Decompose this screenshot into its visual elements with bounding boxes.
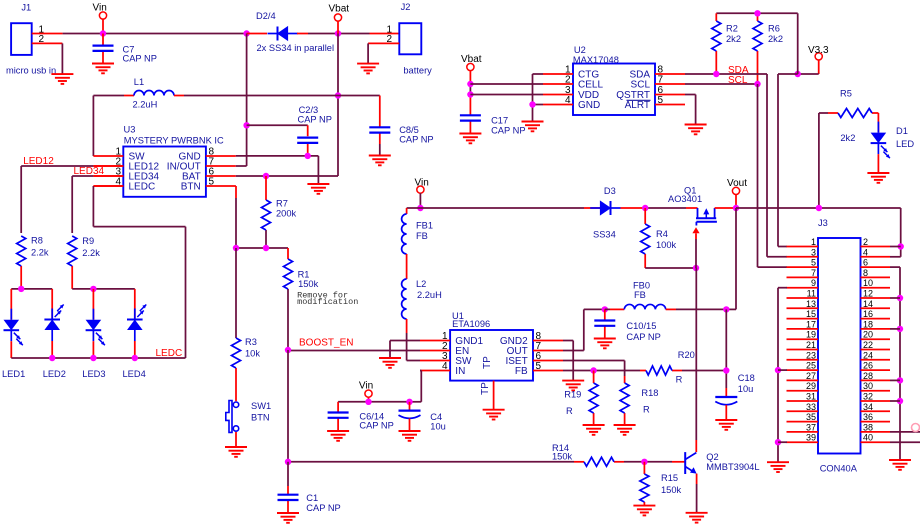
svg-text:4: 4: [442, 361, 448, 372]
pin 8 number U3: [209, 147, 215, 158]
svg-text:11: 11: [807, 289, 816, 299]
svg-text:2k2: 2k2: [840, 133, 855, 143]
svg-text:MAX17048: MAX17048: [573, 55, 619, 65]
pin 4 number U3: [115, 177, 121, 188]
wire U2 pin 7 stub: [655, 83, 685, 85]
wire J3 pin 3 stub: [787, 256, 819, 258]
pin name ALRT U2: [625, 100, 650, 111]
resistor R8 2.2k: [17, 236, 26, 289]
svg-text:4: 4: [863, 247, 868, 257]
pin 24 number J3: [863, 350, 873, 360]
svg-text:CAP NP: CAP NP: [306, 503, 340, 513]
wire U3 pin 7 stub: [206, 165, 236, 167]
wire Vin mid stem: [419, 193, 421, 208]
wire diode left lead red: [247, 33, 267, 35]
wire Q2 emitter: [696, 474, 698, 513]
wire FB1 top lead: [406, 208, 408, 214]
label C4 value 10u: [430, 421, 446, 431]
svg-text:LED1: LED1: [2, 369, 25, 379]
svg-text:LED3: LED3: [82, 369, 105, 379]
svg-text:D2/4: D2/4: [256, 11, 276, 21]
svg-text:R8: R8: [31, 236, 43, 246]
label LED1: [2, 369, 25, 379]
svg-text:30: 30: [863, 381, 873, 391]
label LED3: [82, 369, 105, 379]
wire J3 pin 4 stub: [861, 256, 891, 258]
wire J3 pin 39 stub: [787, 441, 819, 443]
net label SCL: [728, 75, 748, 86]
svg-text:FB0: FB0: [633, 281, 650, 291]
wire J2 pin2 stub and drop: [368, 43, 399, 63]
label R7 refdes: [276, 199, 288, 209]
label R15 refdes: [661, 473, 678, 483]
wire U1 pin 7 stub: [533, 350, 563, 352]
wire U3 BAT row: [236, 175, 338, 177]
resistor R4 100k: [641, 208, 650, 268]
wire U1 pin 8 stub: [533, 340, 563, 342]
svg-text:40: 40: [863, 433, 873, 443]
svg-text:9: 9: [811, 278, 816, 288]
net label SDA: [728, 65, 749, 76]
LED LED4: [127, 298, 146, 358]
wire U3 GND row to C2/3 bottom: [236, 156, 319, 184]
resistor R6 2k2: [753, 13, 762, 84]
junction R6 top rail: [754, 10, 760, 16]
svg-text:FB: FB: [515, 366, 528, 377]
svg-text:GND: GND: [578, 100, 600, 111]
junction C18 R20: [723, 367, 729, 373]
pin 35 number J3: [806, 412, 816, 422]
ferrite bead FB1: [402, 214, 407, 254]
wire J3 pin 5 stub: [787, 266, 819, 268]
resistor R1 150k: [284, 248, 293, 350]
pin 1 number J3: [811, 237, 816, 247]
resistor R3 10k: [232, 248, 241, 372]
svg-text:ALRT: ALRT: [625, 100, 650, 111]
pin 17 number J3: [806, 319, 816, 329]
resistor R18: [620, 383, 629, 425]
svg-text:5: 5: [811, 258, 816, 268]
junction J3 pin18: [897, 326, 903, 332]
pin 1 number U2: [565, 65, 571, 76]
pin name VDD U2: [578, 90, 599, 101]
svg-text:7: 7: [811, 268, 816, 278]
pin 23 number J3: [806, 350, 816, 360]
pin 1 number J1: [38, 24, 44, 35]
ground C17: [459, 134, 481, 144]
pin name CTG U2: [578, 70, 599, 81]
wire J3 pin 14 stub: [861, 307, 891, 309]
wire VDD to Vbat: [470, 94, 543, 96]
wire LED bottom rail: [11, 357, 185, 359]
label L1 refdes: [134, 77, 144, 87]
pin 3 number J3: [811, 247, 816, 257]
pin 2 number U1: [442, 341, 448, 352]
svg-text:12: 12: [863, 289, 873, 299]
capacitor C18 10u: [715, 397, 737, 420]
wire J3 pin 23 stub: [787, 359, 819, 361]
wire U1 IN wire: [410, 371, 422, 402]
ferrite bead FB0: [624, 304, 665, 309]
svg-text:CAP NP: CAP NP: [626, 332, 660, 342]
svg-text:Vbat: Vbat: [461, 54, 482, 65]
label C1 refdes: [306, 493, 318, 503]
wire J3 pin 34 stub: [861, 410, 891, 412]
wire J3 right ground rail: [890, 267, 900, 460]
wire U3 pin 6 stub: [206, 175, 236, 177]
wire R20 right to C18 node: [682, 370, 726, 372]
label FB0 value FB: [634, 290, 646, 300]
label R1 value: [298, 279, 319, 289]
svg-text:21: 21: [806, 340, 816, 350]
ground C8/5: [369, 156, 391, 166]
svg-text:R2: R2: [726, 24, 738, 34]
label C7 refdes: [123, 45, 135, 55]
junction VDD: [467, 91, 473, 97]
label R2 refdes: [726, 24, 738, 34]
wire R5 right to D1: [877, 113, 879, 122]
label D3 value SS34: [593, 229, 616, 239]
svg-text:MYSTERY PWRBNK IC: MYSTERY PWRBNK IC: [124, 135, 224, 145]
pin 11 number J3: [807, 289, 816, 299]
svg-text:CELL: CELL: [578, 80, 603, 91]
junction LED2 bottom: [49, 355, 55, 361]
wire U1 pin 5 stub: [533, 370, 563, 372]
pin 6 number U3: [209, 167, 215, 178]
label C4 refdes: [430, 412, 442, 422]
wire J3 pin 1 stub: [787, 246, 819, 248]
wire U2 pin 3 stub: [543, 94, 573, 96]
pin name IN/OUT U3: [167, 162, 201, 173]
junction Vin rail: [100, 30, 106, 36]
junction C10/15 FB0: [602, 306, 608, 312]
resistor R9 2.2k: [68, 236, 77, 289]
label R7 value: [276, 209, 297, 219]
svg-text:J2: J2: [401, 2, 411, 12]
svg-text:5: 5: [209, 177, 215, 188]
wire Vbat rail: [308, 33, 370, 35]
wire Q1 drain to Vout: [715, 207, 736, 209]
label R2 value: [726, 34, 741, 44]
label C7 value CAP NP: [123, 53, 157, 63]
pin arrow Q1 gate: [692, 227, 699, 239]
label C18 value 10u: [738, 384, 754, 394]
wire L2 to U1 SW: [406, 319, 408, 361]
wire pullup top rail: [716, 12, 797, 14]
label C17 refdes: [491, 116, 508, 126]
label SW1 refdes: [251, 401, 271, 411]
wire U1 SW row: [407, 360, 420, 362]
svg-text:SCL: SCL: [728, 75, 748, 86]
capacitor C4 10u: [399, 402, 421, 431]
svg-text:J3: J3: [818, 218, 828, 228]
wire J3 pin32 link: [890, 400, 900, 402]
wire CELL to Vbat: [470, 83, 543, 85]
wire U3 IN/OUT to diode node: [236, 34, 247, 167]
svg-text:MMBT3904L: MMBT3904L: [706, 462, 759, 472]
LED D1: [871, 122, 890, 162]
junction LED3 bottom: [90, 355, 96, 361]
label R3 value: [245, 349, 260, 359]
svg-text:Vbat: Vbat: [329, 3, 350, 14]
capacitor C17: [460, 115, 481, 133]
ground TP: [483, 410, 505, 420]
inductor L2 2.2uH: [402, 279, 407, 319]
pin 7 number J3: [811, 268, 816, 278]
svg-text:LED34: LED34: [74, 166, 105, 177]
label R19 refdes: [564, 390, 581, 400]
label J3 name CON40A: [820, 464, 858, 474]
junction Vin bottom: [365, 399, 371, 405]
pin 29 number J3: [806, 381, 816, 391]
wire J3 pin 28 stub: [861, 379, 891, 381]
junction R8 rail1: [18, 286, 24, 292]
wire J3 pin 2 stub: [861, 246, 891, 248]
label R5 refdes: [840, 88, 852, 98]
IC U1 ETA1096: [450, 330, 533, 381]
pin 32 number J3: [863, 392, 873, 402]
pin name SW U1: [455, 356, 472, 367]
junction C2/3 branch: [243, 122, 249, 128]
wire LED3 column top: [92, 289, 94, 298]
svg-text:2x SS34 in parallel: 2x SS34 in parallel: [257, 43, 335, 53]
svg-text:150k: 150k: [298, 279, 319, 289]
wire J3 pin 9 stub: [787, 287, 819, 289]
wire J3 left ground rail: [778, 288, 787, 462]
ground R19: [583, 425, 605, 435]
svg-text:BTN: BTN: [251, 413, 270, 423]
svg-text:Vout: Vout: [727, 178, 747, 189]
wire L1 left lead: [93, 95, 134, 97]
wire C18 vertical: [725, 309, 727, 397]
pin name GND U2: [578, 100, 600, 111]
svg-text:5: 5: [658, 95, 664, 106]
resistor R20: [646, 366, 682, 375]
wire SDA row: [685, 73, 767, 75]
label R9 value: [82, 248, 100, 258]
wire LED12 net: [21, 166, 123, 233]
wire J3 pin 17 stub: [787, 328, 819, 330]
ground U1 GND2: [562, 381, 584, 391]
wire U3 pin 1 stub: [93, 155, 123, 157]
wire J3 pin25 link: [778, 369, 787, 371]
label Q1 value AO3401: [668, 194, 702, 204]
svg-text:C10/15: C10/15: [626, 321, 656, 331]
svg-text:CON40A: CON40A: [820, 464, 858, 474]
label U2 name MAX17048: [573, 55, 619, 65]
pin 18 number J3: [863, 319, 873, 329]
svg-text:2.2uH: 2.2uH: [417, 290, 442, 300]
wire C2/3 top branch: [247, 125, 308, 136]
power port at right edge (faded): [912, 424, 920, 432]
ground R15: [633, 506, 655, 516]
pin name SDA U2: [629, 70, 650, 81]
wire L1 to U3 SW: [92, 96, 94, 157]
wire R5 left to Vout net: [819, 113, 828, 208]
wire V3.3 rail up: [797, 13, 799, 74]
svg-text:AO3401: AO3401: [668, 194, 702, 204]
ground C7: [92, 64, 114, 74]
svg-text:10k: 10k: [245, 349, 260, 359]
capacitor C2/3: [297, 138, 318, 156]
ground J2 pin2: [357, 64, 379, 74]
wire Vout rail right: [736, 207, 901, 209]
svg-text:L2: L2: [416, 279, 426, 289]
junction R4 gate node: [693, 265, 699, 271]
inductor L1 2.2uH: [134, 91, 174, 96]
label Q2 value MMBT3904L: [706, 462, 759, 472]
svg-text:6: 6: [863, 258, 868, 268]
wire U1 ISET to R18: [563, 361, 625, 384]
svg-text:R: R: [643, 405, 650, 415]
pin 39 number J3: [806, 433, 816, 443]
svg-text:TP: TP: [480, 382, 491, 395]
label R14 value: [552, 452, 573, 462]
ground U2: [522, 122, 544, 132]
wire J3 pin 22 stub: [861, 349, 891, 351]
label D1 value LED: [896, 139, 914, 149]
ground D1: [867, 173, 889, 183]
svg-text:200k: 200k: [276, 209, 297, 219]
label R18 refdes: [641, 388, 658, 398]
pin 27 number J3: [806, 371, 816, 381]
svg-text:TP: TP: [482, 356, 493, 369]
wire FB1 to L2: [406, 254, 408, 279]
svg-text:C1: C1: [306, 493, 318, 503]
capacitor C7: [93, 34, 114, 64]
label C18 refdes: [738, 373, 755, 383]
svg-text:24: 24: [863, 350, 873, 360]
net label LED12: [23, 156, 54, 167]
wire U3 pin 4 stub: [93, 185, 123, 187]
label R20 value R: [676, 375, 683, 385]
net label BOOST_EN: [299, 338, 353, 349]
svg-text:Vin: Vin: [359, 381, 373, 392]
wire R1 bottom to bottom row: [287, 350, 289, 462]
svg-text:CAP NP: CAP NP: [123, 53, 157, 63]
svg-text:33: 33: [806, 402, 816, 412]
junction C4 top: [406, 399, 412, 405]
wire J3 pin 13 stub: [787, 307, 819, 309]
wire U1 pin 6 stub: [533, 360, 563, 362]
pin 6 number J3: [863, 258, 868, 268]
wire U3 pin 5 stub: [206, 185, 236, 187]
wire Vout stem: [735, 195, 737, 209]
pin 5 number U2: [658, 95, 664, 106]
svg-text:R9: R9: [82, 236, 94, 246]
wire SCL row: [685, 83, 758, 85]
label 2x SS34 in parallel: [257, 43, 335, 53]
pin name BTN U3: [181, 182, 201, 193]
pin 30 number J3: [863, 381, 873, 391]
svg-text:R18: R18: [641, 388, 658, 398]
junction LED3 rail2: [90, 286, 96, 292]
label J2 refdes: [401, 2, 411, 12]
wire J3 pin40 to edge: [890, 441, 920, 443]
pin 1 number U3: [115, 147, 121, 158]
label C2/3 refdes: [299, 105, 319, 115]
wire J3 pin 27 stub: [787, 379, 819, 381]
svg-text:Vin: Vin: [415, 178, 429, 189]
svg-text:22: 22: [863, 340, 873, 350]
IC U2 MAX17048: [573, 64, 655, 116]
pin 8 number J3: [863, 268, 868, 278]
pin 19 number J3: [806, 330, 816, 340]
wire J2 pin1 stub: [370, 33, 400, 35]
pin name LED34 U3: [129, 172, 160, 183]
svg-text:2k2: 2k2: [726, 34, 741, 44]
connector J3 CON40A: [818, 238, 861, 454]
label R18 value R: [643, 405, 650, 415]
pin name EN U1: [455, 346, 469, 357]
wire U1 GND1 to ground: [390, 341, 420, 359]
wire L1 right lead and mid rail: [174, 96, 380, 119]
pin 1 number U1: [442, 331, 448, 342]
pin 5 number U3: [209, 177, 215, 188]
svg-text:2.2uH: 2.2uH: [133, 100, 158, 110]
svg-text:C18: C18: [738, 373, 755, 383]
label R4 value: [656, 240, 677, 250]
svg-text:R: R: [676, 375, 683, 385]
capacitor C6/14: [328, 402, 349, 431]
wire Vbat port stem: [337, 21, 339, 33]
svg-text:R4: R4: [656, 229, 668, 239]
wire U1 pin 2 stub: [420, 350, 450, 352]
power port Vin bottom: [359, 381, 373, 398]
wire J3 pin 30 stub: [861, 390, 891, 392]
svg-text:LEDC: LEDC: [129, 182, 156, 193]
wire J3 pin 25 stub: [787, 369, 819, 371]
wire J3 pin 40 stub: [861, 441, 891, 443]
pin 5 number U1: [536, 361, 542, 372]
power port Vbat top: [329, 3, 350, 21]
pin 2 number J3: [863, 237, 868, 247]
label Q2 refdes: [706, 452, 718, 462]
wire LED34 net: [72, 176, 123, 233]
wire J3 pin 38 stub: [861, 431, 891, 433]
pin name SW U3: [129, 152, 146, 163]
svg-text:BOOST_EN: BOOST_EN: [299, 338, 353, 349]
resistor R14 150k: [584, 457, 624, 466]
svg-text:D1: D1: [896, 126, 908, 136]
ground C6/14: [327, 431, 349, 441]
wire D1 to ground: [877, 162, 879, 173]
svg-text:5: 5: [536, 361, 542, 372]
label C10/15 value CAP NP: [626, 332, 660, 342]
svg-text:2: 2: [565, 75, 571, 86]
pin 36 number J3: [863, 412, 873, 422]
label D1 refdes: [896, 126, 908, 136]
svg-text:Vin: Vin: [93, 3, 107, 14]
resistor R7 200k: [262, 176, 271, 248]
label R9 refdes: [82, 236, 94, 246]
svg-text:R5: R5: [840, 88, 852, 98]
svg-text:14: 14: [863, 299, 873, 309]
pin 14 number J3: [863, 299, 873, 309]
svg-text:38: 38: [863, 422, 873, 432]
label battery: [403, 65, 432, 75]
svg-text:15: 15: [806, 309, 816, 319]
wire LEDC net: [93, 186, 185, 358]
pin 7 number U3: [209, 157, 215, 168]
LED LED3: [86, 298, 105, 358]
label U1 name ETA1096: [452, 319, 490, 329]
junction BOOST_EN: [285, 347, 291, 353]
wire J3 pin 19 stub: [787, 338, 819, 340]
pin 21 number J3: [806, 340, 816, 350]
wire Vout to pin2: [890, 246, 901, 248]
wire SDA down to J3 pin3: [767, 74, 787, 257]
